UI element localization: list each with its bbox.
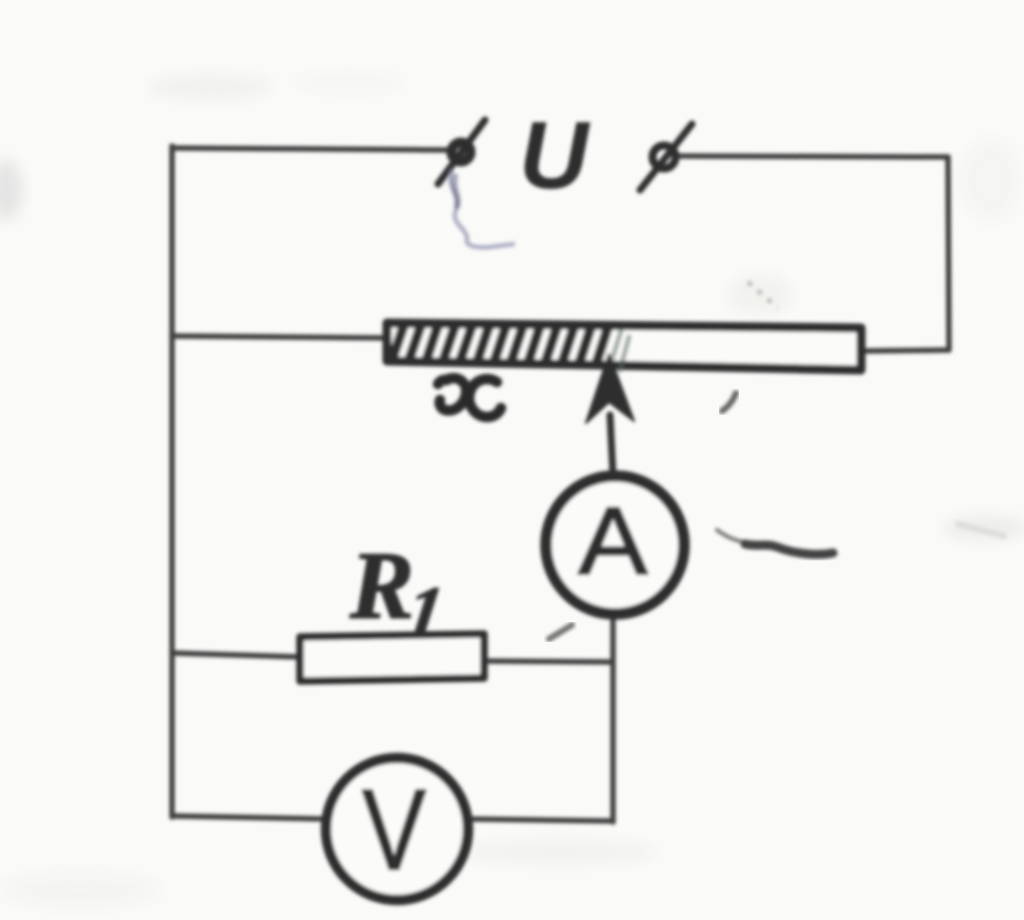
wire ammeter bottom vertical xyxy=(610,615,616,822)
slide-wire hatching (used portion x) xyxy=(392,325,608,364)
voltmeter V xyxy=(326,758,468,900)
wire R1 left xyxy=(172,653,302,657)
svg-text:U: U xyxy=(519,102,591,209)
wire voltmeter right xyxy=(469,819,613,821)
wire bottom-left to voltmeter xyxy=(174,816,326,819)
ammeter A xyxy=(546,476,684,614)
wire top-right horizontal xyxy=(678,156,948,157)
faint diagonal scratch above slide-wire right xyxy=(748,282,778,308)
wire slide-wire right branch xyxy=(861,350,949,351)
label x xyxy=(438,378,501,417)
stray dash below-left of ammeter xyxy=(549,625,572,639)
terminal right xyxy=(640,124,692,190)
svg-text:V: V xyxy=(362,767,426,894)
pen smudge below left terminal xyxy=(450,170,513,247)
label R1 xyxy=(349,532,449,654)
wire left vertical xyxy=(169,146,175,817)
wire top-left horizontal xyxy=(172,148,451,150)
terminal left xyxy=(438,120,485,184)
pen dash right of ammeter xyxy=(717,524,1004,554)
wire right vertical xyxy=(948,157,949,350)
slide-wire resistor body xyxy=(387,323,861,370)
stray mark near slide-wire (apostrophe) xyxy=(722,393,736,411)
resistor R1 body xyxy=(300,634,484,681)
wiper arrow xyxy=(586,354,634,476)
wire slide-wire left branch xyxy=(172,336,388,338)
svg-text:A: A xyxy=(578,488,648,595)
wire R1 right to ammeter node xyxy=(484,661,612,662)
